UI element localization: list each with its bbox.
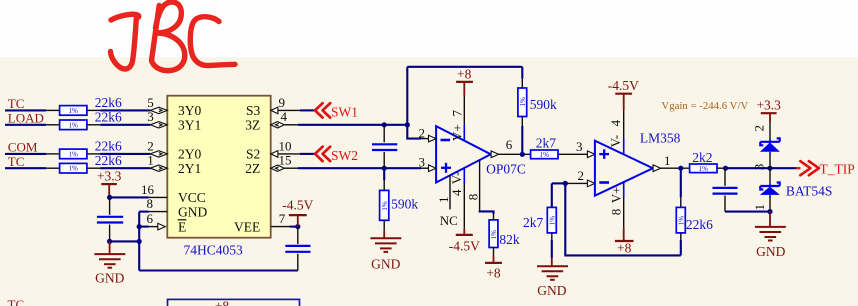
junction VEE node <box>295 224 300 229</box>
svg-text:2: 2 <box>147 138 154 153</box>
opamp pin 1 NC <box>436 175 458 228</box>
resistor R 22k6 feedback <box>676 168 713 255</box>
svg-text:VCC: VCC <box>178 190 206 205</box>
svg-text:GND: GND <box>95 271 124 286</box>
svg-text:590k: 590k <box>391 197 418 212</box>
junction pin6 <box>137 224 142 229</box>
svg-text:1: 1 <box>664 153 671 168</box>
svg-text:COM: COM <box>8 140 38 155</box>
svg-text:22k6: 22k6 <box>95 110 122 125</box>
capacitor C left bottom lead <box>109 225 111 242</box>
svg-text:2: 2 <box>751 125 766 132</box>
svg-text:1%: 1% <box>69 121 79 129</box>
ground GND mid <box>370 230 401 271</box>
wire pin6 stub <box>139 226 148 228</box>
svg-text:1%: 1% <box>548 216 556 226</box>
svg-text:TC: TC <box>8 297 25 306</box>
power +8 below 82k <box>485 256 502 281</box>
junction gnd node <box>767 209 772 214</box>
pin 5 3Y0 <box>147 95 201 118</box>
port SW2 <box>315 147 358 163</box>
resistor R 22k6 row4 <box>46 153 122 173</box>
capacitor C VEE top lead <box>297 227 299 244</box>
svg-text:-4.5V: -4.5V <box>449 238 480 253</box>
junction cap-gnd node <box>107 239 112 244</box>
wire row1 to chip <box>100 109 150 111</box>
power +8 LM358 <box>615 228 634 256</box>
svg-text:7: 7 <box>450 110 465 117</box>
svg-text:2k2: 2k2 <box>692 150 712 165</box>
pin 1 2Y1 <box>147 153 201 176</box>
svg-text:Vgain = -244.6 V/V: Vgain = -244.6 V/V <box>661 100 748 112</box>
capacitor C VEE bottom lead <box>297 254 299 271</box>
wire GND pin8 to vertical <box>139 211 148 213</box>
handwriting J <box>111 14 139 69</box>
wire cap right to gnd node <box>725 211 770 213</box>
opamp U3 LM358 <box>595 130 681 195</box>
opamp pin 6 output <box>491 137 587 158</box>
wire VEE to -4.5V node <box>290 226 298 228</box>
power +3.3 left <box>97 169 122 198</box>
resistor R 590k top <box>518 79 557 126</box>
svg-text:GND: GND <box>371 257 400 272</box>
svg-text:1%: 1% <box>677 216 685 226</box>
wire row2 to chip <box>100 124 150 126</box>
svg-text:3Y1: 3Y1 <box>178 118 201 133</box>
resistor R 590k mid <box>380 168 419 230</box>
svg-text:SW2: SW2 <box>331 148 358 163</box>
junction 3Z cap <box>382 122 387 127</box>
wire net TC row4 <box>5 167 46 169</box>
background white band <box>0 0 858 57</box>
svg-text:TC: TC <box>8 154 25 169</box>
svg-text:2k7: 2k7 <box>536 135 557 150</box>
svg-text:22k6: 22k6 <box>686 217 713 232</box>
pin 8 GND <box>147 196 208 219</box>
wire LM358 pin2 node <box>552 182 566 184</box>
svg-text:+8: +8 <box>617 241 632 256</box>
ground GND right <box>755 212 786 260</box>
wire +3.3 to VCC <box>110 196 149 198</box>
junction loop node <box>137 239 142 244</box>
svg-text:1%: 1% <box>69 107 79 115</box>
pin 7 VEE <box>234 211 289 234</box>
pin 16 VCC <box>141 182 206 205</box>
svg-text:22k6: 22k6 <box>95 95 122 110</box>
opamp pin 3 input <box>419 155 437 172</box>
junction 2Z cap <box>382 166 387 171</box>
ground GND 2k7 <box>537 258 568 298</box>
svg-text:74HC4053: 74HC4053 <box>184 243 244 258</box>
port SW1 <box>315 103 358 119</box>
svg-text:3Y0: 3Y0 <box>178 103 201 118</box>
opamp pin 7 V+ <box>450 96 465 141</box>
svg-text:LOAD: LOAD <box>8 110 44 125</box>
svg-text:3: 3 <box>576 139 583 154</box>
LM358 pin 3 input <box>576 139 595 158</box>
svg-text:3: 3 <box>147 109 154 124</box>
IC U4 partial <box>168 299 300 306</box>
svg-text:3Z: 3Z <box>245 118 260 133</box>
svg-text:2: 2 <box>578 168 585 183</box>
svg-text:5: 5 <box>147 95 154 110</box>
wire feedback vertical left <box>406 67 408 125</box>
handwriting B <box>152 2 185 71</box>
svg-text:+8: +8 <box>215 299 230 306</box>
svg-text:+8: +8 <box>486 266 501 281</box>
svg-text:2k7: 2k7 <box>523 215 544 230</box>
svg-text:BAT54S: BAT54S <box>786 184 833 199</box>
svg-text:VEE: VEE <box>234 219 260 234</box>
wire bottom rail <box>139 269 298 271</box>
wire vertical pin8/pin6 <box>138 212 140 271</box>
diode D1a BAT54S top <box>751 122 780 168</box>
resistor R 22k6 row3 <box>46 139 122 159</box>
svg-text:+8: +8 <box>457 67 472 82</box>
port T_TIP <box>796 161 855 176</box>
junction pin2 feedback <box>563 181 568 186</box>
svg-text:1%: 1% <box>69 150 79 158</box>
capacitor C right <box>713 188 738 194</box>
svg-text:GND: GND <box>537 283 566 298</box>
junction VCC node <box>107 195 112 200</box>
junction 3Z feedback <box>405 122 410 127</box>
capacitor C left top lead <box>109 197 111 214</box>
svg-text:V+: V+ <box>450 124 465 141</box>
pin 9 S3 <box>246 95 315 118</box>
pin 4 3Z <box>245 109 298 132</box>
svg-text:9: 9 <box>279 95 286 110</box>
capacitor C mid bottom lead <box>383 152 385 168</box>
svg-text:6: 6 <box>506 137 513 152</box>
diode D1b BAT54S bottom <box>751 164 832 212</box>
svg-text:7: 7 <box>279 211 286 226</box>
wire 2k2 to diode node <box>725 167 796 169</box>
LM358 pin 8 V+ <box>608 182 623 228</box>
pin 6 E enable <box>147 211 187 234</box>
wire 590k to output node <box>521 126 523 154</box>
wire feedback vertical right <box>521 67 523 79</box>
resistor R 2k7 low <box>523 207 556 240</box>
wire row3 to chip <box>100 153 150 155</box>
svg-text:SW1: SW1 <box>331 104 358 119</box>
svg-text:GND: GND <box>756 244 785 259</box>
svg-text:+3.3: +3.3 <box>756 98 781 113</box>
LM358 pin 2 input <box>565 168 595 187</box>
svg-text:GND: GND <box>178 204 207 219</box>
wire net LOAD row2 <box>5 124 46 126</box>
wire feedback bottom <box>565 183 681 255</box>
svg-text:3: 3 <box>751 164 766 171</box>
svg-text:2Y0: 2Y0 <box>178 147 201 162</box>
svg-text:6: 6 <box>147 211 154 226</box>
opamp pin 4 V- <box>449 168 464 228</box>
wire cap node to loop <box>110 240 140 242</box>
power -4.5V opamp <box>449 228 480 253</box>
svg-text:4: 4 <box>449 189 464 196</box>
handwriting C <box>190 17 235 66</box>
wire pin8 jog to 82k <box>480 211 494 214</box>
resistor R 2k2 <box>690 150 725 173</box>
wire 2Z to opamp pin3 <box>298 167 421 169</box>
power +3.3 right <box>756 98 781 122</box>
svg-text:+3.3: +3.3 <box>97 169 122 184</box>
svg-text:V-: V- <box>449 172 464 185</box>
resistor R 82k <box>489 214 520 256</box>
svg-text:1: 1 <box>147 153 154 168</box>
IC U1 74HC4053 body <box>167 96 270 238</box>
opamp pin 2 input <box>419 125 437 142</box>
svg-text:OP07C: OP07C <box>486 162 526 177</box>
wire net TC row1 <box>5 109 46 111</box>
svg-text:2Y1: 2Y1 <box>178 161 201 176</box>
svg-text:22k6: 22k6 <box>95 139 122 154</box>
power -4.5V at VEE <box>282 198 313 227</box>
svg-text:16: 16 <box>141 182 155 197</box>
pin 10 S2 <box>246 138 315 161</box>
svg-text:1: 1 <box>752 204 767 211</box>
wire feedback top <box>407 66 522 68</box>
svg-text:T_TIP: T_TIP <box>820 162 855 177</box>
junction output feedback <box>678 166 683 171</box>
junction cap right <box>723 166 728 171</box>
svg-text:-4.5V: -4.5V <box>282 198 313 213</box>
svg-text:-4.5V: -4.5V <box>608 78 639 93</box>
svg-text:V+: V+ <box>608 187 623 204</box>
LM358 pin 1 output <box>653 153 690 172</box>
pin 2 2Y0 <box>147 138 201 161</box>
resistor R 2k7 top <box>531 135 558 159</box>
svg-text:10: 10 <box>279 138 292 153</box>
svg-text:22k6: 22k6 <box>95 153 122 168</box>
svg-text:3: 3 <box>419 155 426 170</box>
svg-text:590k: 590k <box>530 97 557 112</box>
wire row4 to chip <box>100 167 150 169</box>
junction diode node <box>767 166 772 171</box>
pin 15 2Z <box>245 153 298 176</box>
LM358 pin 4 V- <box>608 110 624 155</box>
svg-text:2: 2 <box>419 125 426 140</box>
svg-text:1%: 1% <box>699 165 709 173</box>
svg-text:1%: 1% <box>490 230 498 240</box>
opamp pin 8 <box>465 160 480 211</box>
pin 3 3Y1 <box>147 109 201 132</box>
wire jog to opamp pin2 <box>407 125 421 139</box>
svg-text:1%: 1% <box>519 97 527 107</box>
wire net COM row3 <box>5 153 46 155</box>
svg-text:2Z: 2Z <box>245 161 260 176</box>
wire 2k7 low to gnd <box>551 240 553 258</box>
svg-text:4: 4 <box>281 109 288 124</box>
power +8 top <box>456 67 473 96</box>
junction output 590k <box>520 152 525 157</box>
svg-text:LM358: LM358 <box>640 130 681 145</box>
power -4.5V LM358 <box>608 78 639 110</box>
capacitor C VEE <box>285 246 310 252</box>
svg-text:S2: S2 <box>246 147 260 162</box>
opamp U2 OP07C <box>436 126 526 182</box>
svg-text:NC: NC <box>440 213 458 228</box>
capacitor C mid <box>372 144 397 150</box>
capacitor C right bottom lead <box>724 196 726 212</box>
resistor R 22k6 row1 <box>46 95 122 115</box>
svg-text:E: E <box>178 219 186 234</box>
svg-text:S3: S3 <box>246 103 261 118</box>
svg-text:82k: 82k <box>499 232 520 247</box>
ground GND left <box>94 241 125 285</box>
svg-text:15: 15 <box>279 153 292 168</box>
svg-text:TC: TC <box>8 96 25 111</box>
svg-text:8: 8 <box>608 209 623 216</box>
svg-text:1%: 1% <box>540 151 550 159</box>
capacitor C right top lead <box>724 168 726 186</box>
svg-text:4: 4 <box>608 119 623 126</box>
wire 3Z to opamp net <box>298 124 407 126</box>
svg-text:1%: 1% <box>381 201 389 211</box>
svg-text:1%: 1% <box>69 165 79 173</box>
wire down to 2k7 low <box>551 183 553 207</box>
capacitor C mid top lead <box>383 125 385 143</box>
svg-text:V-: V- <box>608 135 623 148</box>
svg-text:8: 8 <box>465 194 480 201</box>
capacitor C left <box>97 217 123 223</box>
resistor R 22k6 row2 <box>46 110 122 130</box>
svg-text:1: 1 <box>436 197 451 204</box>
